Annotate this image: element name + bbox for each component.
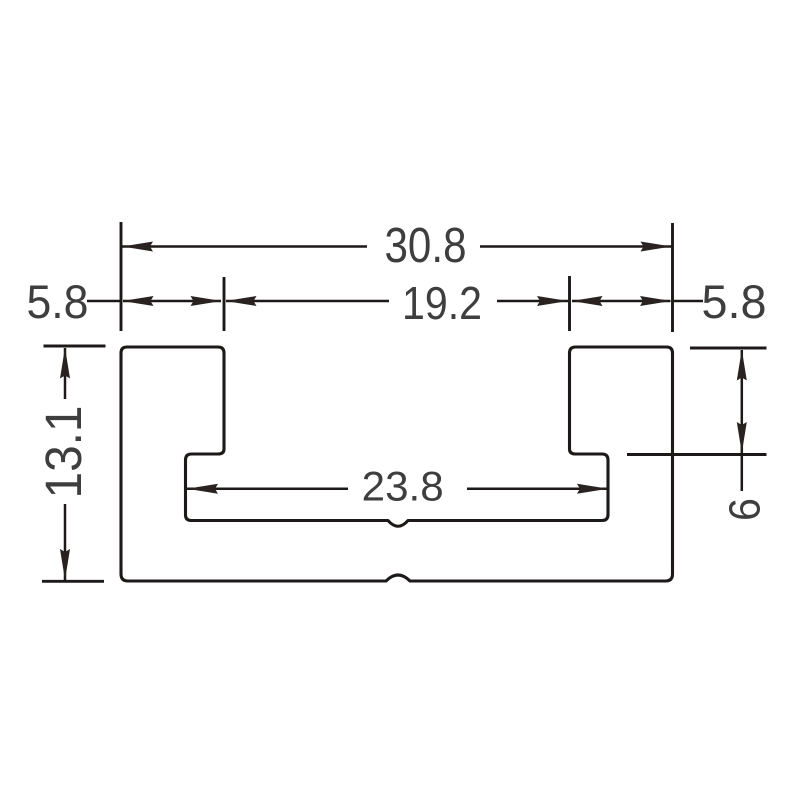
svg-text:5.8: 5.8 — [27, 276, 89, 329]
svg-text:19.2: 19.2 — [402, 277, 482, 329]
svg-text:6: 6 — [721, 498, 770, 521]
svg-text:30.8: 30.8 — [385, 218, 467, 273]
svg-text:23.8: 23.8 — [362, 463, 444, 510]
svg-text:5.8: 5.8 — [702, 276, 767, 329]
svg-text:13.1: 13.1 — [35, 406, 92, 499]
